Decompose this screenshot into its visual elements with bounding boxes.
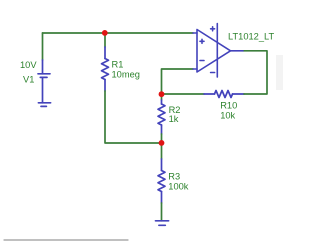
faint scrollbar remnant band xyxy=(276,55,283,90)
resistor R10 xyxy=(204,91,244,98)
svg-text:1k: 1k xyxy=(169,114,179,124)
svg-text:10meg: 10meg xyxy=(112,69,140,79)
svg-text:R1: R1 xyxy=(112,60,124,70)
wire R3 top lead xyxy=(161,143,163,159)
wire R2 bottom lead xyxy=(161,134,163,143)
resistor R2 xyxy=(158,100,165,134)
junction node dot at V1/R1/op-amp net xyxy=(102,30,108,36)
op-amp inverting input minus mark xyxy=(200,60,204,62)
svg-text:10V: 10V xyxy=(20,60,37,70)
voltage source V1 (battery symbol) xyxy=(38,60,50,103)
op-amp output pin stub xyxy=(231,50,244,52)
svg-text:R10: R10 xyxy=(220,100,237,110)
wire from R10 right lead up to op-amp output xyxy=(243,51,267,94)
svg-text:R3: R3 xyxy=(168,172,180,182)
wire R2 top lead xyxy=(161,94,163,100)
svg-text:10k: 10k xyxy=(220,110,235,120)
wire inverting input feedback from junction up to op-amp xyxy=(162,69,194,94)
svg-text:V1: V1 xyxy=(23,75,34,85)
bottom window edge gray line xyxy=(4,239,128,241)
op-amp noninverting input plus mark xyxy=(200,39,204,43)
resistor R1 xyxy=(102,47,109,91)
ground below R3 xyxy=(156,221,169,226)
wire V1 top lead xyxy=(42,33,44,60)
op-amp input pin stubs xyxy=(193,33,197,69)
op-amp supply rail line xyxy=(216,24,218,78)
op-amp U1 LT1012 triangle body xyxy=(193,24,243,78)
svg-text:LT1012_LT: LT1012_LT xyxy=(228,31,274,41)
wire R3 bottom lead xyxy=(161,203,163,221)
svg-text:100k: 100k xyxy=(168,181,189,191)
wire from R1 bottom down and right to R2/R3 junction xyxy=(105,91,162,143)
ground below V1 xyxy=(38,103,50,107)
resistor R3 xyxy=(158,159,165,203)
wire from feedback junction to R10 left lead xyxy=(162,93,205,95)
op-amp V+ supply plus mark xyxy=(211,27,215,31)
junction node dot at R2/R3 node xyxy=(159,140,165,146)
wire top net from V1 to op-amp noninverting input xyxy=(43,32,194,34)
junction node dot at R2/R10 feedback node xyxy=(159,91,165,97)
op-amp V- supply minus mark xyxy=(211,72,215,74)
wire R1 top lead xyxy=(104,33,106,47)
